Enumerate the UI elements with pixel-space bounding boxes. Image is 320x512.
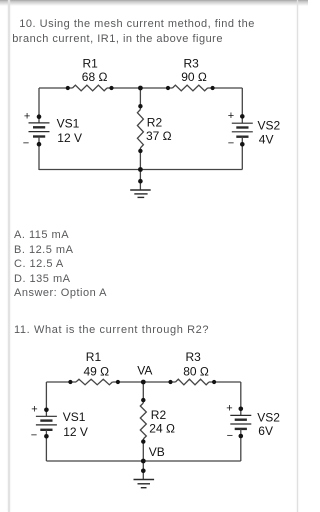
svg-text:6V: 6V [258,424,273,438]
svg-text:VA: VA [137,363,152,377]
resistor R1 (second) [76,379,112,385]
battery VS1 (second) [36,416,57,430]
node dot VS2 bottom (c2) [239,434,244,439]
node dot VS1 bottom [37,142,42,147]
resistor R1 [73,85,108,91]
ground (circuit 1) [130,190,151,197]
right page edge [297,0,299,512]
node dot VS1 bottom (c2) [44,434,49,439]
svg-text:−: − [227,430,233,442]
options text [14,228,107,300]
node dot R1 right [109,86,113,90]
node dot R2 top [138,104,142,108]
wire: top bus left segment [39,87,73,89]
left page edge [8,0,10,512]
svg-text:12 V: 12 V [63,425,88,439]
wire: ground stub [139,170,141,191]
svg-text:12 V: 12 V [57,131,82,145]
node dot R3 right (c2) [212,380,216,384]
svg-text:+: + [228,110,234,122]
wire: top bus mid segment [112,381,175,383]
wire: left branch upper [38,88,40,123]
battery VS1 [29,123,50,137]
wire: left branch lower [45,430,47,461]
svg-text:90 Ω: 90 Ω [181,70,207,84]
wire: right branch lower [241,137,243,170]
svg-text:R3: R3 [184,57,200,71]
node dot R2 top (c2) [141,398,145,402]
node dot R3 left (c2) [168,380,172,384]
svg-text:R2: R2 [151,408,167,422]
ground (circuit 2) [134,480,155,488]
node dot ground stub (c2) [141,469,146,474]
svg-text:−: − [31,430,37,442]
svg-text:R1: R1 [83,57,99,71]
wire: top bus mid segment [107,87,173,89]
wire: middle branch lower [139,148,141,170]
svg-text:+: + [226,402,232,414]
node dot top middle junction [138,86,143,91]
svg-text:R3: R3 [186,350,202,364]
top shadow [0,0,308,6]
node dot VS2 top (c2) [239,407,244,412]
node dot R2 bottom [138,149,142,153]
svg-text:+: + [31,404,37,416]
resistor R2 [137,110,143,148]
resistor R2 (second) [140,403,146,439]
resistor R3 [173,85,208,91]
wire: middle branch upper [139,88,141,110]
svg-text:68 Ω: 68 Ω [82,70,108,84]
node dot VA junction [141,380,146,385]
wire: middle branch upper [142,382,144,403]
svg-text:+: + [24,111,30,123]
svg-text:VS2: VS2 [257,411,280,425]
svg-text:−: − [228,137,234,149]
wire: top bus right segment [208,87,243,89]
svg-text:VB: VB [149,445,165,459]
node dot ground stub [138,179,143,184]
svg-text:R1: R1 [86,350,102,364]
svg-text:80 Ω: 80 Ω [183,365,209,379]
wire: middle branch lower [142,439,144,461]
node dot R1 left [66,86,70,90]
node dot R1 right (c2) [116,380,120,384]
node dot bottom middle junction [138,167,143,172]
question 10 text [12,17,255,48]
wire: right branch upper [241,88,243,123]
wire: right branch lower [240,429,242,461]
battery VS2 [232,123,253,137]
node dot VS2 top [240,114,245,119]
svg-text:VS1: VS1 [63,410,86,424]
svg-text:49 Ω: 49 Ω [84,365,110,379]
node dot R3 left [166,86,170,90]
resistor R3 (second) [176,379,209,385]
node dot R1 left (c2) [68,380,72,384]
node dot R3 right [211,86,215,90]
node dot VB junction [141,459,146,464]
node dot R2 bottom (c2) [141,439,145,443]
svg-text:24 Ω: 24 Ω [149,422,175,436]
wire: bottom bus [39,169,242,171]
wire: ground stub [142,461,144,480]
node dot VS1 top (c2) [44,408,49,413]
battery VS2 (second) [230,415,251,429]
svg-text:4V: 4V [259,132,274,146]
wire: top bus right segment [209,381,241,383]
node dot VS2 bottom [240,142,245,147]
wire: right branch upper [240,382,242,415]
svg-text:−: − [23,138,29,150]
wire: bottom bus [46,460,240,462]
svg-text:VS1: VS1 [57,117,80,131]
question 11 text [14,323,209,338]
svg-text:VS2: VS2 [258,118,281,132]
svg-text:R2: R2 [147,115,163,129]
svg-text:37 Ω: 37 Ω [146,129,172,143]
wire: top bus left segment [46,381,76,383]
wire: left branch upper [45,382,47,416]
wire: left branch lower [38,137,40,171]
node dot VS1 top [37,114,42,119]
